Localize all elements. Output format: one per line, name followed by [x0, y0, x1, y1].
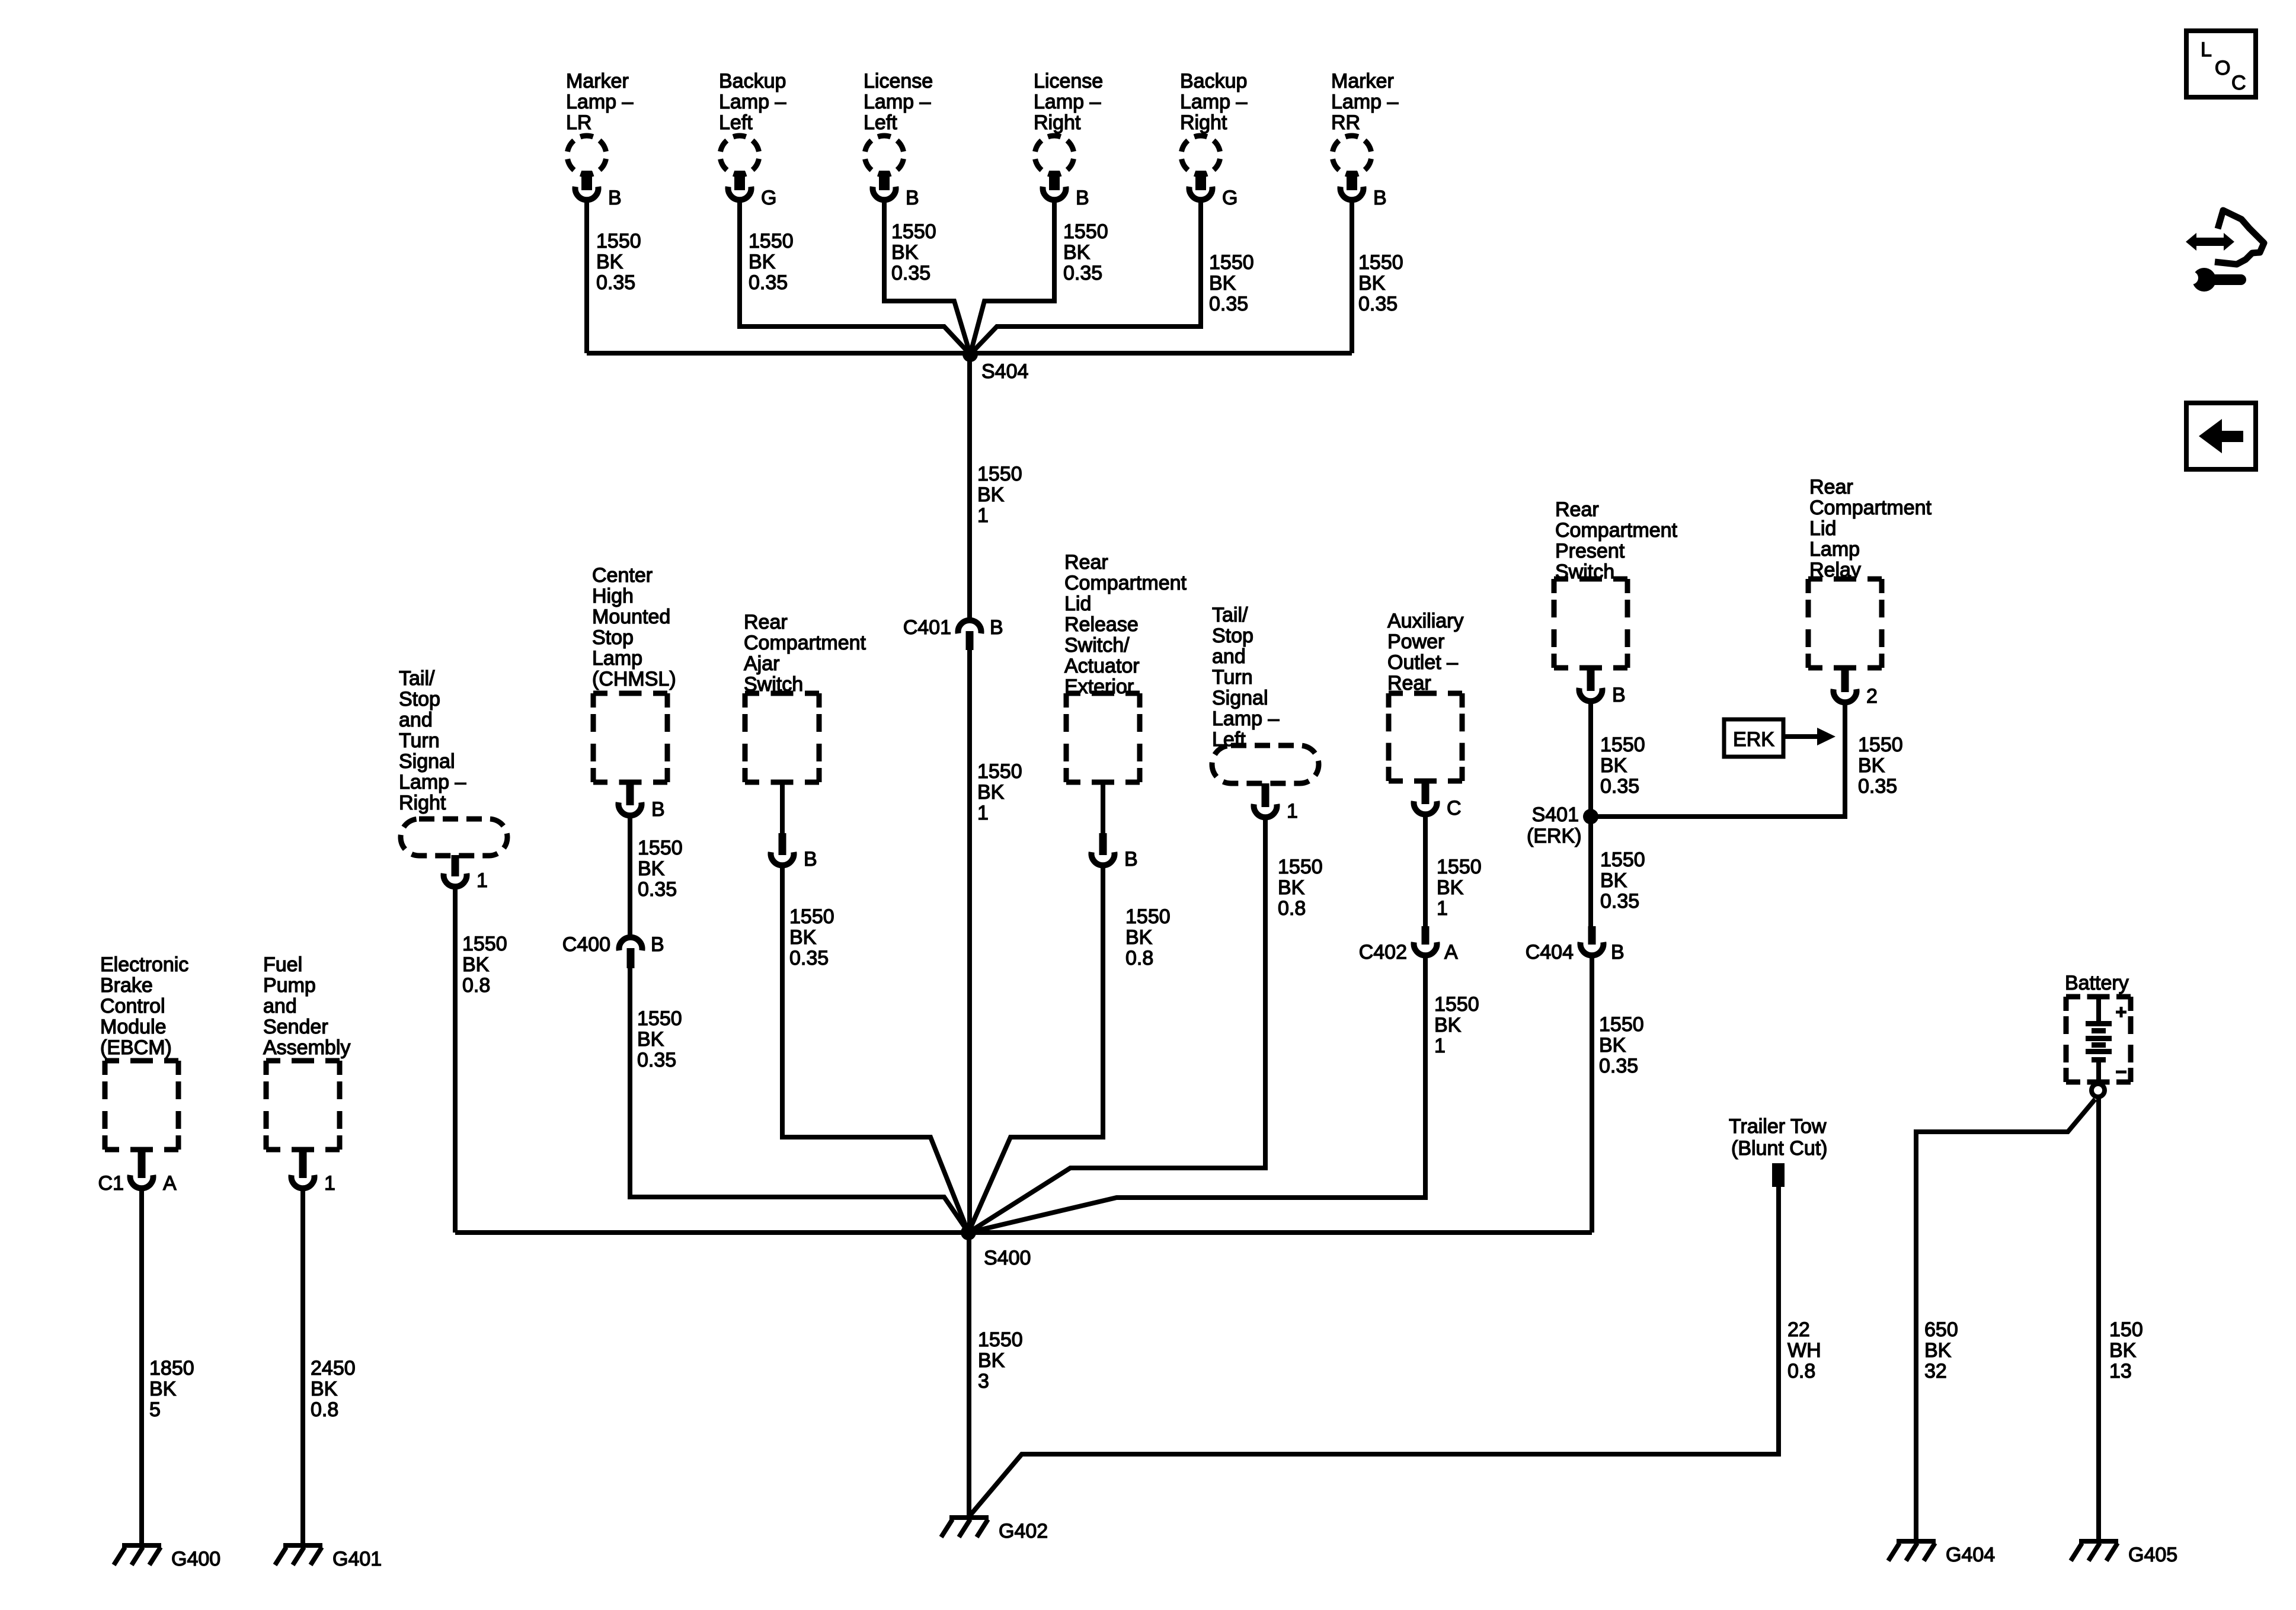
svg-text:1550: 1550 [1600, 849, 1645, 871]
svg-text:BK: BK [462, 953, 490, 976]
svg-text:1550: 1550 [1858, 734, 1903, 756]
svg-text:Stop: Stop [1212, 625, 1253, 647]
svg-text:0.35: 0.35 [596, 271, 635, 294]
svg-text:Electronic: Electronic [100, 953, 188, 976]
svg-text:1550: 1550 [596, 230, 641, 252]
svg-text:BK: BK [1437, 876, 1464, 899]
svg-text:0.35: 0.35 [891, 262, 930, 284]
svg-text:C: C [2231, 72, 2246, 94]
svg-text:1: 1 [1287, 800, 1298, 822]
svg-text:Switch/: Switch/ [1064, 634, 1130, 657]
svg-text:Rear: Rear [1064, 551, 1108, 574]
svg-text:C1: C1 [98, 1172, 124, 1195]
svg-text:Present: Present [1555, 540, 1625, 562]
svg-text:Right: Right [1180, 111, 1227, 134]
svg-text:0.35: 0.35 [1063, 262, 1102, 284]
svg-text:A: A [163, 1172, 177, 1195]
svg-text:BK: BK [596, 251, 623, 273]
svg-text:Pump: Pump [263, 974, 316, 997]
svg-text:1: 1 [1434, 1035, 1446, 1057]
svg-text:0.8: 0.8 [462, 974, 490, 997]
svg-text:1550: 1550 [638, 837, 683, 859]
svg-text:Lamp –: Lamp – [1034, 91, 1101, 113]
svg-text:2450: 2450 [311, 1357, 356, 1379]
svg-text:Lamp –: Lamp – [566, 91, 633, 113]
svg-text:150: 150 [2109, 1318, 2143, 1341]
svg-text:Lamp –: Lamp – [399, 771, 466, 793]
svg-text:1550: 1550 [1209, 251, 1254, 274]
svg-text:ERK: ERK [1733, 728, 1774, 751]
svg-text:B: B [804, 848, 817, 870]
svg-text:B: B [906, 187, 919, 209]
svg-text:RR: RR [1331, 111, 1360, 134]
svg-text:1550: 1550 [1278, 856, 1323, 878]
svg-text:and: and [399, 709, 433, 731]
svg-text:Compartment: Compartment [1809, 497, 1932, 519]
svg-text:1550: 1550 [977, 760, 1022, 783]
svg-text:650: 650 [1924, 1318, 1958, 1341]
svg-text:S400: S400 [984, 1247, 1031, 1269]
svg-text:G400: G400 [171, 1548, 220, 1570]
svg-text:B: B [608, 187, 622, 209]
svg-text:BK: BK [1858, 754, 1885, 777]
svg-text:Ajar: Ajar [744, 652, 779, 675]
svg-text:1: 1 [477, 869, 488, 892]
svg-text:0.35: 0.35 [1599, 1055, 1638, 1077]
svg-text:BK: BK [1125, 926, 1153, 949]
svg-text:Sender: Sender [263, 1016, 328, 1038]
svg-text:S401: S401 [1532, 804, 1579, 826]
svg-text:1550: 1550 [977, 463, 1022, 485]
svg-text:G: G [1222, 187, 1237, 209]
svg-text:1550: 1550 [749, 230, 794, 252]
svg-text:(ERK): (ERK) [1527, 825, 1582, 847]
svg-text:0.35: 0.35 [749, 271, 788, 294]
svg-text:Right: Right [399, 792, 446, 814]
svg-text:BK: BK [1600, 754, 1627, 777]
svg-text:C401: C401 [903, 616, 951, 639]
svg-text:1: 1 [1437, 897, 1448, 920]
svg-text:Rear: Rear [744, 611, 788, 633]
svg-text:2: 2 [1866, 685, 1878, 708]
svg-text:G402: G402 [999, 1520, 1048, 1542]
svg-text:Release: Release [1064, 613, 1139, 636]
svg-text:High: High [592, 585, 634, 607]
svg-text:BK: BK [1209, 272, 1236, 295]
svg-text:Outlet –: Outlet – [1387, 651, 1458, 674]
svg-text:0.35: 0.35 [1600, 775, 1639, 798]
svg-text:B: B [1612, 684, 1626, 706]
svg-text:1550: 1550 [1437, 856, 1482, 878]
svg-text:Lamp: Lamp [592, 647, 642, 670]
svg-text:0.35: 0.35 [1358, 293, 1398, 315]
svg-text:BK: BK [749, 251, 776, 273]
svg-text:13: 13 [2109, 1360, 2132, 1382]
svg-text:Left: Left [719, 111, 753, 134]
svg-text:Left: Left [864, 111, 897, 134]
svg-text:Module: Module [100, 1016, 167, 1038]
svg-text:Signal: Signal [1212, 687, 1268, 709]
svg-text:and: and [1212, 645, 1246, 668]
svg-text:1550: 1550 [1125, 905, 1171, 928]
svg-text:(EBCM): (EBCM) [100, 1036, 172, 1059]
svg-text:1550: 1550 [1434, 993, 1479, 1016]
svg-text:(Blunt Cut): (Blunt Cut) [1731, 1137, 1828, 1160]
svg-text:License: License [1034, 70, 1103, 92]
svg-text:Rear: Rear [1555, 498, 1599, 521]
svg-text:Right: Right [1034, 111, 1081, 134]
svg-text:BK: BK [1924, 1339, 1952, 1362]
svg-text:1550: 1550 [462, 933, 507, 955]
svg-text:Rear: Rear [1809, 476, 1853, 498]
svg-text:Lid: Lid [1809, 517, 1836, 540]
svg-text:1: 1 [324, 1172, 335, 1195]
svg-text:0.35: 0.35 [638, 878, 677, 901]
svg-text:BK: BK [789, 926, 817, 949]
svg-text:22: 22 [1787, 1318, 1810, 1341]
svg-text:Compartment: Compartment [744, 632, 866, 654]
svg-text:BK: BK [1600, 869, 1627, 892]
svg-text:32: 32 [1924, 1360, 1947, 1382]
svg-text:B: B [1373, 187, 1387, 209]
svg-text:Lamp –: Lamp – [1331, 91, 1398, 113]
svg-text:1550: 1550 [1063, 220, 1108, 243]
svg-text:C402: C402 [1359, 941, 1407, 964]
svg-text:Lamp –: Lamp – [1212, 708, 1279, 730]
svg-text:B: B [990, 616, 1003, 639]
svg-text:Mounted: Mounted [592, 606, 670, 628]
svg-text:Compartment: Compartment [1555, 519, 1678, 542]
svg-text:BK: BK [1063, 241, 1091, 264]
svg-text:BK: BK [638, 857, 665, 880]
svg-text:BK: BK [311, 1378, 338, 1400]
svg-text:Power: Power [1387, 630, 1444, 653]
svg-text:Compartment: Compartment [1064, 572, 1187, 594]
svg-text:C404: C404 [1526, 941, 1574, 964]
svg-text:Turn: Turn [1212, 666, 1253, 689]
svg-text:Signal: Signal [399, 750, 455, 773]
svg-text:1550: 1550 [1358, 251, 1403, 274]
svg-text:Backup: Backup [719, 70, 786, 92]
svg-text:Tail/: Tail/ [399, 667, 435, 690]
svg-text:BK: BK [978, 1349, 1005, 1372]
svg-text:Lamp –: Lamp – [1180, 91, 1247, 113]
svg-text:G404: G404 [1946, 1544, 1995, 1566]
svg-text:0.8: 0.8 [311, 1398, 338, 1421]
svg-text:Assembly: Assembly [263, 1036, 350, 1059]
svg-text:Center: Center [592, 564, 653, 587]
svg-text:1550: 1550 [1599, 1013, 1644, 1036]
svg-text:BK: BK [1599, 1034, 1626, 1057]
svg-text:C: C [1447, 797, 1462, 820]
svg-text:G405: G405 [2128, 1544, 2177, 1566]
svg-text:0.8: 0.8 [1787, 1360, 1815, 1382]
svg-text:B: B [651, 798, 665, 821]
svg-text:1: 1 [977, 802, 989, 824]
svg-text:Lamp: Lamp [1809, 538, 1860, 561]
svg-text:3: 3 [978, 1370, 989, 1393]
svg-text:B: B [651, 933, 664, 956]
svg-text:0.35: 0.35 [1209, 293, 1248, 315]
svg-text:Control: Control [100, 995, 165, 1017]
svg-text:0.35: 0.35 [1600, 890, 1639, 913]
svg-text:1550: 1550 [891, 220, 936, 243]
svg-text:B: B [1611, 941, 1625, 964]
svg-text:1550: 1550 [1600, 734, 1645, 756]
svg-text:0.35: 0.35 [1858, 775, 1897, 798]
svg-text:0.8: 0.8 [1278, 897, 1306, 920]
svg-text:and: and [263, 995, 297, 1017]
svg-text:Backup: Backup [1180, 70, 1247, 92]
svg-text:LR: LR [566, 111, 591, 134]
svg-text:1550: 1550 [978, 1329, 1023, 1351]
svg-text:O: O [2215, 57, 2230, 79]
svg-text:1550: 1550 [637, 1007, 682, 1030]
svg-text:Brake: Brake [100, 974, 153, 997]
svg-text:C400: C400 [562, 933, 610, 956]
svg-text:BK: BK [1434, 1014, 1462, 1036]
svg-text:WH: WH [1787, 1339, 1821, 1362]
svg-text:BK: BK [2109, 1339, 2137, 1362]
svg-text:BK: BK [637, 1028, 664, 1051]
svg-text:(CHMSL): (CHMSL) [592, 668, 676, 690]
svg-text:G401: G401 [332, 1548, 382, 1570]
svg-text:BK: BK [1278, 876, 1305, 899]
svg-text:1850: 1850 [149, 1357, 194, 1379]
svg-text:S404: S404 [981, 360, 1028, 383]
svg-text:1: 1 [977, 504, 989, 527]
svg-text:L: L [2201, 39, 2212, 61]
svg-text:5: 5 [149, 1398, 161, 1421]
svg-text:Marker: Marker [566, 70, 629, 92]
svg-text:Trailer Tow: Trailer Tow [1729, 1115, 1827, 1138]
svg-text:Lamp –: Lamp – [864, 91, 930, 113]
svg-text:B: B [1076, 187, 1089, 209]
svg-text:BK: BK [891, 241, 919, 264]
svg-text:Battery: Battery [2065, 972, 2129, 994]
svg-text:A: A [1444, 941, 1458, 964]
svg-text:Lid: Lid [1064, 593, 1091, 615]
svg-text:License: License [864, 70, 933, 92]
svg-text:BK: BK [977, 781, 1005, 804]
svg-text:Stop: Stop [399, 688, 440, 710]
svg-text:Turn: Turn [399, 729, 440, 752]
svg-text:Actuator: Actuator [1064, 655, 1140, 677]
svg-text:1550: 1550 [789, 905, 834, 928]
svg-text:Auxiliary: Auxiliary [1387, 610, 1463, 632]
svg-text:B: B [1124, 848, 1138, 870]
svg-text:BK: BK [1358, 272, 1386, 295]
svg-text:0.8: 0.8 [1125, 947, 1153, 969]
svg-text:BK: BK [149, 1378, 177, 1400]
svg-text:BK: BK [977, 484, 1005, 506]
svg-text:Fuel: Fuel [263, 953, 302, 976]
svg-text:0.35: 0.35 [789, 947, 829, 969]
svg-text:Stop: Stop [592, 626, 634, 649]
svg-text:0.35: 0.35 [637, 1049, 676, 1071]
svg-text:Lamp –: Lamp – [719, 91, 786, 113]
svg-text:Tail/: Tail/ [1212, 604, 1248, 626]
svg-text:Marker: Marker [1331, 70, 1394, 92]
svg-text:G: G [761, 187, 776, 209]
